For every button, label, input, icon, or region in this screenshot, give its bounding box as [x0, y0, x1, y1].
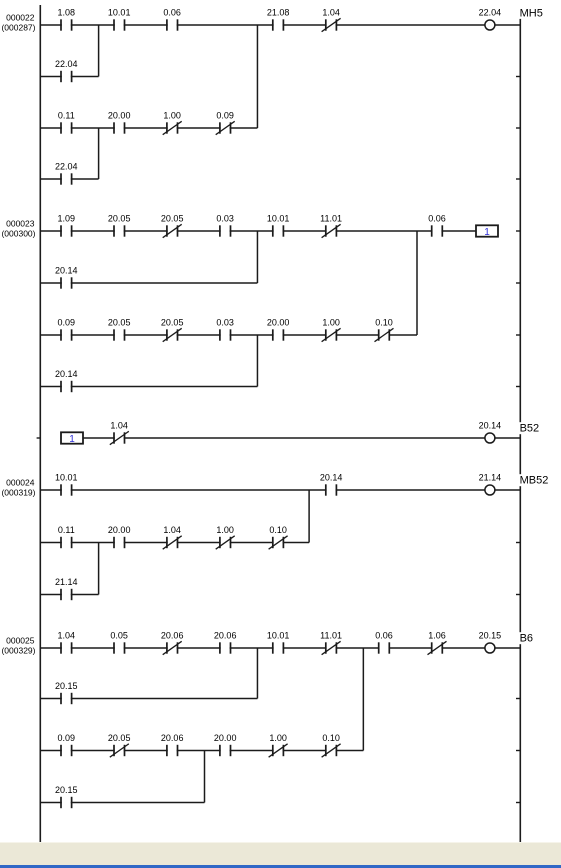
- svg-text:MB52: MB52: [520, 475, 549, 487]
- svg-text:0.06: 0.06: [428, 214, 446, 224]
- wire: [124, 127, 168, 129]
- wire: [40, 489, 62, 491]
- svg-text:20.00: 20.00: [108, 525, 131, 535]
- OR-branch junction: [256, 231, 258, 283]
- coil 20.15 (B6): [479, 631, 502, 653]
- coil 22.04 (MH5): [479, 8, 502, 30]
- wire: [124, 542, 168, 544]
- svg-text:B6: B6: [520, 633, 533, 645]
- wire: [71, 542, 115, 544]
- wire: [177, 750, 221, 752]
- svg-text:0.11: 0.11: [58, 525, 75, 535]
- NC contact 1.00: [216, 525, 235, 549]
- wire: [283, 334, 327, 336]
- jump/instruction box 1 (jump): [476, 225, 498, 238]
- wire: [71, 282, 258, 284]
- svg-text:20.15: 20.15: [479, 631, 502, 641]
- wire: [283, 542, 310, 544]
- coil 21.14 (MB52): [479, 473, 502, 495]
- wire: [336, 489, 485, 491]
- OR-branch junction: [362, 648, 364, 751]
- NC contact 1.04: [163, 525, 182, 549]
- contact 21.08: [267, 8, 290, 31]
- wire: [40, 750, 62, 752]
- contact 20.05: [108, 318, 131, 341]
- right rail row tick: [516, 282, 520, 284]
- right rail row tick: [516, 750, 520, 752]
- svg-text:0.06: 0.06: [163, 8, 181, 18]
- right rail row tick: [516, 334, 520, 336]
- NC contact 1.00: [269, 733, 288, 757]
- svg-text:1.00: 1.00: [322, 318, 340, 328]
- wire: [71, 802, 205, 804]
- svg-text:22.04: 22.04: [55, 59, 78, 69]
- contact 20.15: [55, 785, 78, 808]
- svg-text:22.04: 22.04: [479, 8, 502, 18]
- NC contact 0.10: [375, 318, 394, 342]
- svg-text:10.01: 10.01: [267, 631, 290, 641]
- svg-text:21.14: 21.14: [479, 473, 502, 483]
- svg-text:(000319): (000319): [1, 488, 35, 498]
- svg-text:20.14: 20.14: [55, 266, 78, 276]
- contact 0.11: [58, 111, 75, 134]
- wire: [40, 647, 62, 649]
- wire: [177, 647, 221, 649]
- svg-text:22.04: 22.04: [55, 162, 78, 172]
- svg-text:20.05: 20.05: [108, 318, 131, 328]
- wire: [124, 24, 168, 26]
- contact 0.03: [216, 214, 234, 237]
- svg-text:10.01: 10.01: [55, 473, 78, 483]
- NC contact 1.00: [322, 318, 341, 342]
- right rail row tick: [516, 698, 520, 700]
- wire: [495, 489, 520, 491]
- wire: [283, 230, 327, 232]
- contact 20.00: [108, 111, 131, 134]
- contact 20.14: [55, 369, 78, 392]
- wire: [40, 334, 62, 336]
- svg-text:0.11: 0.11: [58, 111, 75, 121]
- contact 22.04: [55, 162, 78, 185]
- wire: [336, 24, 485, 26]
- wire: [230, 542, 274, 544]
- branch wire junction: [256, 335, 258, 387]
- wire: [336, 230, 433, 232]
- svg-text:20.15: 20.15: [55, 681, 78, 691]
- wire: [177, 334, 221, 336]
- svg-text:20.15: 20.15: [55, 785, 78, 795]
- contact 20.05: [108, 214, 131, 237]
- contact 21.14: [55, 577, 78, 600]
- rung number 000024 (000319): [1, 478, 35, 498]
- svg-text:000025: 000025: [6, 636, 35, 646]
- wire: [71, 334, 115, 336]
- svg-text:0.03: 0.03: [216, 214, 234, 224]
- contact 0.09: [58, 733, 76, 756]
- rung number 000025 (000329): [1, 636, 35, 656]
- contact 10.01: [267, 214, 290, 237]
- wire: [495, 24, 520, 26]
- svg-text:20.05: 20.05: [161, 318, 184, 328]
- wire: [40, 76, 62, 78]
- NC contact 1.04: [110, 421, 129, 445]
- left rail row tick: [37, 437, 41, 439]
- svg-text:B52: B52: [520, 423, 540, 435]
- wire: [230, 750, 274, 752]
- svg-text:20.14: 20.14: [479, 421, 502, 431]
- svg-text:1.04: 1.04: [163, 525, 181, 535]
- svg-text:(000329): (000329): [1, 646, 35, 656]
- svg-text:0.10: 0.10: [322, 733, 340, 743]
- svg-text:10.01: 10.01: [267, 214, 290, 224]
- wire: [441, 647, 484, 649]
- svg-text:0.09: 0.09: [58, 318, 76, 328]
- wire: [336, 647, 380, 649]
- wire: [71, 230, 115, 232]
- svg-text:11.01: 11.01: [320, 631, 342, 641]
- right rail row tick: [516, 386, 520, 388]
- wire: [389, 334, 418, 336]
- contact 10.01: [108, 8, 131, 31]
- svg-text:20.00: 20.00: [267, 318, 290, 328]
- svg-text:20.14: 20.14: [55, 369, 78, 379]
- wire: [40, 802, 62, 804]
- wire: [71, 698, 258, 700]
- OR-branch junction: [416, 231, 418, 335]
- svg-text:1.04: 1.04: [322, 8, 340, 18]
- branch wire junction: [98, 25, 100, 77]
- wire: [40, 127, 62, 129]
- wire: [230, 647, 274, 649]
- wire: [177, 127, 221, 129]
- OR-branch junction: [256, 648, 258, 699]
- contact 22.04: [55, 59, 78, 82]
- svg-text:0.06: 0.06: [375, 631, 393, 641]
- svg-text:21.08: 21.08: [267, 8, 290, 18]
- svg-text:1.06: 1.06: [428, 631, 446, 641]
- wire: [83, 437, 115, 439]
- contact 20.14: [55, 266, 78, 289]
- NC contact 1.00: [163, 111, 182, 135]
- right rail row tick: [516, 178, 520, 180]
- svg-text:20.05: 20.05: [108, 214, 131, 224]
- wire: [124, 750, 168, 752]
- svg-text:1: 1: [69, 434, 75, 445]
- wire: [71, 178, 99, 180]
- svg-text:1.09: 1.09: [58, 214, 76, 224]
- right rail row tick: [516, 76, 520, 78]
- wire: [60, 437, 62, 439]
- coil 20.14 (B52): [479, 421, 502, 443]
- wire: [40, 386, 62, 388]
- wire: [71, 386, 258, 388]
- right rail row tick: [516, 230, 520, 232]
- wire: [495, 647, 520, 649]
- wire: [177, 542, 221, 544]
- NC contact 20.06: [161, 631, 184, 655]
- contact 1.04: [58, 631, 76, 654]
- NC contact 20.05: [161, 318, 184, 342]
- wire: [495, 437, 520, 439]
- wire: [40, 282, 62, 284]
- contact 1.09: [58, 214, 76, 237]
- output name MB52: [519, 474, 551, 487]
- rung number 000023 (000300): [1, 219, 35, 239]
- NC contact 0.10: [269, 525, 288, 549]
- rung number 000022 (000287): [1, 13, 35, 33]
- NC contact 1.04: [322, 8, 341, 32]
- svg-text:(000287): (000287): [1, 23, 35, 33]
- NC contact 20.05: [161, 214, 184, 238]
- wire: [230, 127, 258, 129]
- right rail row tick: [516, 542, 520, 544]
- contact 0.09: [58, 318, 76, 341]
- contact 0.06: [428, 214, 446, 237]
- blue window edge: [0, 865, 561, 868]
- svg-text:(000300): (000300): [1, 229, 35, 239]
- svg-text:1.00: 1.00: [163, 111, 181, 121]
- wire: [389, 647, 433, 649]
- wire: [283, 750, 327, 752]
- wire: [71, 594, 99, 596]
- output name B6: [519, 632, 536, 645]
- svg-text:0.09: 0.09: [58, 733, 76, 743]
- svg-text:1.00: 1.00: [216, 525, 234, 535]
- wire: [336, 750, 364, 752]
- wire: [283, 24, 327, 26]
- contact 0.06: [375, 631, 393, 654]
- OR-branch junction: [308, 490, 310, 543]
- wire: [124, 647, 168, 649]
- svg-text:1.04: 1.04: [58, 631, 76, 641]
- right rail row tick: [516, 802, 520, 804]
- wire: [441, 230, 476, 232]
- contact 20.15: [55, 681, 78, 704]
- wire: [40, 594, 62, 596]
- wire: [40, 542, 62, 544]
- contact 20.14: [320, 473, 343, 496]
- branch wire junction: [204, 751, 206, 803]
- svg-text:20.00: 20.00: [108, 111, 131, 121]
- output name B52: [519, 422, 543, 435]
- svg-text:20.05: 20.05: [108, 733, 131, 743]
- svg-text:MH5: MH5: [520, 7, 543, 19]
- wire: [40, 698, 62, 700]
- svg-text:20.14: 20.14: [320, 473, 343, 483]
- contact 20.00: [214, 733, 237, 756]
- contact 0.06: [163, 8, 181, 31]
- svg-text:0.10: 0.10: [375, 318, 393, 328]
- branch wire junction: [98, 543, 100, 595]
- contact 10.01: [267, 631, 290, 654]
- contact 20.06: [161, 733, 184, 756]
- svg-text:20.06: 20.06: [161, 631, 184, 641]
- right rail row tick: [516, 127, 520, 129]
- svg-text:000024: 000024: [6, 478, 35, 488]
- NC contact 11.01: [320, 214, 342, 238]
- branch wire junction: [98, 128, 100, 179]
- svg-text:0.03: 0.03: [216, 318, 234, 328]
- contact 20.06: [214, 631, 237, 654]
- svg-text:1: 1: [484, 227, 490, 238]
- wire: [71, 76, 99, 78]
- svg-text:1.08: 1.08: [58, 8, 76, 18]
- NC contact 0.09: [216, 111, 235, 135]
- wire: [71, 489, 327, 491]
- contact 1.08: [58, 8, 76, 31]
- NC contact 1.06: [428, 631, 447, 655]
- svg-text:000022: 000022: [6, 13, 35, 23]
- output name MH5: [519, 7, 546, 20]
- wire: [124, 230, 168, 232]
- contact 0.05: [110, 631, 128, 654]
- svg-text:0.10: 0.10: [269, 525, 287, 535]
- status bar (beige): [0, 842, 561, 866]
- contact 0.03: [216, 318, 234, 341]
- svg-text:000023: 000023: [6, 219, 35, 229]
- wire: [40, 178, 62, 180]
- svg-text:1.00: 1.00: [269, 733, 287, 743]
- wire: [124, 437, 485, 439]
- wire: [336, 334, 380, 336]
- wire: [230, 230, 274, 232]
- NC contact 20.05: [108, 733, 131, 757]
- wire: [71, 24, 115, 26]
- wire: [283, 647, 327, 649]
- svg-text:21.14: 21.14: [55, 577, 78, 587]
- right rail row tick: [516, 594, 520, 596]
- wire: [230, 334, 274, 336]
- wire: [71, 127, 115, 129]
- contact 20.00: [267, 318, 290, 341]
- jump/instruction box 1 (label): [61, 432, 83, 445]
- contact 10.01: [55, 473, 78, 496]
- wire: [40, 24, 62, 26]
- wire: [177, 230, 221, 232]
- svg-text:0.09: 0.09: [216, 111, 234, 121]
- svg-text:11.01: 11.01: [320, 214, 342, 224]
- wire: [71, 750, 115, 752]
- left power rail: [39, 5, 41, 843]
- svg-text:20.06: 20.06: [214, 631, 237, 641]
- wire: [71, 647, 115, 649]
- OR-branch junction: [256, 25, 258, 128]
- svg-text:10.01: 10.01: [108, 8, 131, 18]
- svg-text:20.00: 20.00: [214, 733, 237, 743]
- wire: [40, 230, 62, 232]
- wire: [124, 334, 168, 336]
- contact 0.11: [58, 525, 75, 548]
- svg-text:20.05: 20.05: [161, 214, 184, 224]
- right power rail: [519, 18, 521, 843]
- svg-text:1.04: 1.04: [110, 421, 128, 431]
- svg-text:0.05: 0.05: [110, 631, 128, 641]
- wire: [177, 24, 274, 26]
- svg-text:20.06: 20.06: [161, 733, 184, 743]
- NC contact 11.01: [320, 631, 342, 655]
- contact 20.00: [108, 525, 131, 548]
- NC contact 0.10: [322, 733, 341, 757]
